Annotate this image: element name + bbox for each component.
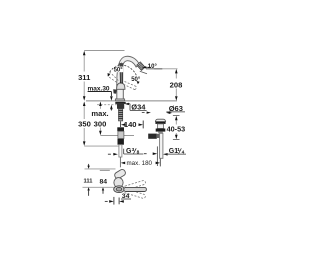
svg-text:350: 350 — [78, 119, 91, 128]
svg-text:max. 180: max. 180 — [127, 160, 153, 167]
svg-text:84: 84 — [100, 180, 108, 186]
svg-text:4: 4 — [182, 150, 185, 156]
svg-text:208: 208 — [170, 80, 183, 89]
svg-text:50°: 50° — [114, 68, 124, 74]
svg-text:34: 34 — [122, 194, 130, 200]
svg-text:max.: max. — [91, 109, 108, 118]
svg-text:140: 140 — [124, 120, 137, 129]
svg-text:311: 311 — [78, 73, 91, 82]
svg-text:40-53: 40-53 — [167, 124, 186, 133]
svg-text:8: 8 — [137, 149, 140, 155]
svg-text:300: 300 — [94, 119, 107, 128]
svg-text:111: 111 — [84, 179, 93, 185]
